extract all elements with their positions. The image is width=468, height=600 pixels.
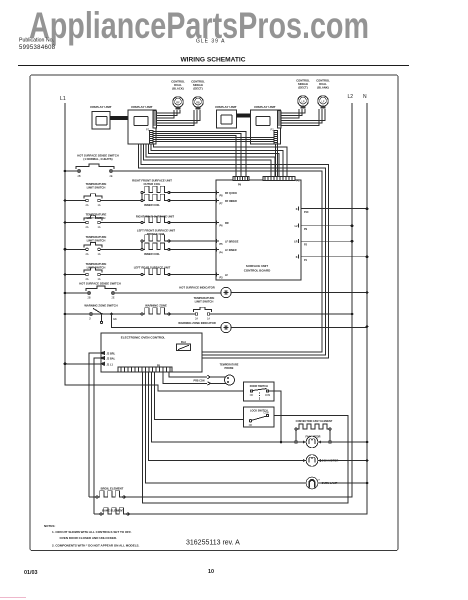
pin P8 RF QUICK xyxy=(213,191,237,198)
wire bus display2 P2 to display4 P2 xyxy=(153,138,274,142)
wire ribbon display1-display2 xyxy=(110,116,128,120)
connector probe chevrons xyxy=(207,375,210,385)
wire BRL to broil element xyxy=(89,353,101,497)
svg-text:HOT SURFACE SENSE SWITCH: HOT SURFACE SENSE SWITCH xyxy=(77,154,118,158)
svg-text:WARNING ZONE SWITCH: WARNING ZONE SWITCH xyxy=(84,304,117,308)
pin P1R wire to N xyxy=(296,255,367,262)
svg-text:GLE 39 A: GLE 39 A xyxy=(196,39,225,45)
wire L2 rail xyxy=(124,103,352,497)
connector display2 right xyxy=(153,111,157,128)
node S7 branch xyxy=(110,313,113,316)
wire RF inner to P7 xyxy=(169,200,213,202)
svg-text:INNER COIL: INNER COIL xyxy=(144,252,160,256)
temperature limit switch S5 xyxy=(84,262,107,281)
svg-text:(BLANK): (BLANK) xyxy=(317,86,329,90)
temperature limit switch S2 xyxy=(84,182,107,207)
svg-text:INNER COIL: INNER COIL xyxy=(144,203,160,207)
svg-text:WARNING ZONE INDICATOR: WARNING ZONE INDICATOR xyxy=(178,321,215,325)
display unit 1 xyxy=(90,105,111,129)
wire EOC to lock switch NO xyxy=(154,372,249,420)
wire fan display4 to LR xyxy=(281,109,305,118)
svg-text:LIMIT SWITCH: LIMIT SWITCH xyxy=(87,265,106,269)
svg-text:K: K xyxy=(296,256,298,259)
lamp oven xyxy=(306,477,338,489)
display unit 2 xyxy=(128,105,156,144)
wire EOC to fan row xyxy=(151,372,296,442)
svg-text:ELECTRONIC OVEN CONTROL: ELECTRONIC OVEN CONTROL xyxy=(121,336,166,340)
svg-text:2E: 2E xyxy=(111,297,114,300)
pin J2 BRL xyxy=(101,352,116,356)
wire EOC to probe low xyxy=(163,372,207,384)
wire bundle display2 to board P1 xyxy=(144,144,288,177)
wire lock motor to N xyxy=(318,460,367,462)
wire fan row to N xyxy=(331,441,367,443)
wire lamp to N xyxy=(318,482,367,484)
wire L1 to S5 xyxy=(65,274,86,276)
svg-text:2A: 2A xyxy=(195,318,198,321)
wire S3 to RR coil xyxy=(100,222,142,224)
pin P4 LF INNER xyxy=(213,247,237,254)
junction dots L1 rail xyxy=(64,170,67,366)
svg-text:DISPLAY UNIT: DISPLAY UNIT xyxy=(254,105,275,109)
wire RF outer to P8 xyxy=(169,192,213,194)
svg-text:DISPLAY UNIT: DISPLAY UNIT xyxy=(215,105,236,109)
pin P5 LF BRIDGE xyxy=(213,239,239,246)
resistor LR coil xyxy=(134,265,171,275)
wire L1 to S2 xyxy=(65,200,86,202)
svg-text:1A: 1A xyxy=(97,226,100,229)
svg-text:LEFT FRONT SURFACE UNIT: LEFT FRONT SURFACE UNIT xyxy=(137,229,176,233)
svg-text:RF QUICK: RF QUICK xyxy=(225,192,237,195)
svg-text:PROBE: PROBE xyxy=(225,367,234,370)
svg-text:CONTROL BOARD: CONTROL BOARD xyxy=(244,269,271,273)
electronic oven control U3 xyxy=(101,333,202,372)
resistor RF outer coil xyxy=(132,179,172,194)
svg-text:K: K xyxy=(296,208,298,211)
svg-text:BRIDGE COIL: BRIDGE COIL xyxy=(147,232,165,236)
title underline xyxy=(18,65,409,67)
svg-text:BAKE ELEMENT: BAKE ELEMENT xyxy=(102,509,124,513)
control LF dual blank xyxy=(316,79,330,109)
wire warning zone coil to S8 xyxy=(169,313,195,315)
svg-text:01/03: 01/03 xyxy=(24,570,38,576)
svg-text:RLA: RLA xyxy=(181,341,186,344)
display unit 4 xyxy=(251,105,281,144)
svg-text:LF BRIDGE: LF BRIDGE xyxy=(225,241,239,244)
node LF unit left xyxy=(141,241,143,249)
wire LR coil to P3 xyxy=(169,274,213,276)
wire fan display2 to RB xyxy=(157,110,200,125)
display unit 3 xyxy=(215,105,236,128)
svg-text:LIMIT SWITCH: LIMIT SWITCH xyxy=(87,186,106,190)
temperature limit switch S3 xyxy=(84,213,107,229)
wire S5 to LR coil xyxy=(100,274,142,276)
svg-text:TEMPERATURE: TEMPERATURE xyxy=(86,182,107,186)
svg-text:DISPLAY UNIT: DISPLAY UNIT xyxy=(90,105,111,109)
svg-text:P1: P1 xyxy=(304,259,308,262)
svg-text:LIMIT SWITCH: LIMIT SWITCH xyxy=(87,239,106,243)
svg-text:RR: RR xyxy=(225,222,229,225)
indicator hot surface xyxy=(179,286,231,298)
wire S7 to warning zone coil xyxy=(92,313,142,315)
svg-text:L2: L2 xyxy=(348,94,354,100)
svg-text:(BLACK): (BLACK) xyxy=(172,87,184,91)
wire S6 to hot surface indicator xyxy=(114,292,221,294)
wire L1 rail xyxy=(65,103,250,391)
svg-text:2A: 2A xyxy=(85,204,88,207)
svg-text:2A: 2A xyxy=(85,226,88,229)
svg-text:HOT SURFACE SENSE SWITCH: HOT SURFACE SENSE SWITCH xyxy=(79,282,120,286)
svg-text:1A: 1A xyxy=(97,204,100,207)
hot surface sense switch S1 xyxy=(76,154,119,178)
wire LF bridge to P5 xyxy=(169,240,213,242)
svg-text:L1: L1 xyxy=(60,96,66,102)
resistor RR coil xyxy=(136,215,175,224)
control RB single xyxy=(191,80,205,110)
wire L1 to S1 xyxy=(65,170,78,172)
control LR single xyxy=(296,79,310,109)
svg-text:OUTER COIL: OUTER COIL xyxy=(144,182,161,186)
svg-text:LF: LF xyxy=(321,99,324,103)
svg-text:CONTROL: CONTROL xyxy=(191,80,205,84)
connector display4 P2 xyxy=(271,128,278,145)
svg-text:2B: 2B xyxy=(77,175,80,178)
indicator warning zone xyxy=(178,321,231,333)
surface unit control board U2 xyxy=(216,180,301,280)
svg-text:1A: 1A xyxy=(207,318,210,321)
svg-text:(1 NORMAL, 4 HEATS): (1 NORMAL, 4 HEATS) xyxy=(83,157,112,161)
junction dots right rails xyxy=(280,207,369,484)
svg-text:LF: LF xyxy=(225,274,229,277)
svg-text:COM: COM xyxy=(263,413,268,415)
wire L1 to S6 xyxy=(65,292,88,294)
wire hot surface indicator to N xyxy=(231,292,367,294)
wire BAL to bake element xyxy=(94,358,101,514)
wire broil to L2 xyxy=(89,496,352,498)
pin P7 RF INNER xyxy=(213,199,237,206)
svg-text:P2: P2 xyxy=(304,243,308,246)
svg-text:LF INNER: LF INNER xyxy=(225,249,237,252)
motor lock xyxy=(303,455,338,467)
control RF dual black xyxy=(171,80,185,110)
pin J1 L1 xyxy=(101,362,114,366)
connector EOC P5 bottom xyxy=(118,364,172,371)
node RF unit left xyxy=(141,193,143,201)
hot surface sense switch S6 xyxy=(79,282,120,300)
svg-text:316255113 rev. A: 316255113 rev. A xyxy=(186,540,240,547)
svg-text:RF: RF xyxy=(176,100,180,104)
resistor LF inner coil xyxy=(141,243,170,256)
wire S2 to RF unit xyxy=(100,200,142,202)
svg-text:SURFACE UNIT: SURFACE UNIT xyxy=(246,264,268,268)
svg-text:2. COMPONENTS WITH * DO NOT: 2. COMPONENTS WITH * DO NOT APPEAR ON AL… xyxy=(52,544,140,548)
wire EOC to probe high xyxy=(169,372,207,377)
svg-text:2A: 2A xyxy=(85,253,88,256)
motor fan xyxy=(295,435,331,448)
svg-text:*: * xyxy=(318,477,320,482)
wire fan display2 to RF xyxy=(157,110,180,118)
wire door COM down to fan row xyxy=(269,391,281,442)
svg-text:LR: LR xyxy=(301,99,304,103)
pin J2 BAL xyxy=(101,357,116,361)
wire chevrons to probe xyxy=(211,377,226,383)
convection element R10 xyxy=(295,420,333,442)
svg-text:SINGLE: SINGLE xyxy=(298,82,308,86)
connector display2 P2 xyxy=(146,128,153,145)
svg-text:COM: COM xyxy=(265,395,270,397)
svg-text:WIRING SCHEMATIC: WIRING SCHEMATIC xyxy=(180,57,245,64)
svg-text:TEMPERATURE: TEMPERATURE xyxy=(86,213,107,217)
lock switch SW2 xyxy=(244,407,275,427)
relay RLA xyxy=(177,341,191,351)
wire N rail xyxy=(128,103,367,514)
wire bus display2 P2 to board P9 xyxy=(153,132,246,177)
wire S1 to oven control relay xyxy=(112,171,322,352)
svg-text:H1: H1 xyxy=(114,318,118,321)
svg-text:2: 2 xyxy=(89,318,91,321)
temperature limit switch S8 xyxy=(194,296,215,321)
svg-text:1A: 1A xyxy=(97,278,100,281)
resistor warning zone xyxy=(141,304,170,316)
svg-text:CONTROL: CONTROL xyxy=(316,79,330,83)
wire display4 P2 to board P1 xyxy=(275,144,277,177)
wire bake to N xyxy=(94,513,367,515)
resistor LF bridge coil xyxy=(137,229,176,243)
svg-text:P10: P10 xyxy=(304,211,309,214)
svg-text:CONTROL: CONTROL xyxy=(171,80,185,84)
svg-text:J1 L1: J1 L1 xyxy=(107,363,114,366)
svg-text:2A: 2A xyxy=(85,278,88,281)
wire EOC to oven lamp xyxy=(145,372,306,483)
svg-text:HOT SURFACE INDICATOR: HOT SURFACE INDICATOR xyxy=(179,286,215,290)
wire bundle display2 to relay loop xyxy=(139,144,329,358)
svg-text:LR: LR xyxy=(294,240,298,243)
connector board P1 top xyxy=(263,177,300,183)
wire L1 to S3 xyxy=(65,222,86,224)
svg-text:DOOR SWITCH: DOOR SWITCH xyxy=(250,385,268,388)
svg-text:10: 10 xyxy=(208,569,214,575)
svg-text:RIGHT REAR SURFACE UNIT: RIGHT REAR SURFACE UNIT xyxy=(136,215,175,219)
svg-text:NO: NO xyxy=(249,425,253,427)
svg-text:RB: RB xyxy=(196,100,200,104)
wire L1 to S4 xyxy=(65,248,86,250)
svg-text:NOTES:: NOTES: xyxy=(44,524,55,528)
notes block xyxy=(44,524,140,548)
wire RR coil to P6 xyxy=(169,222,213,224)
svg-text:OVEN DOOR CLOSED AND UNLOCKED.: OVEN DOOR CLOSED AND UNLOCKED. xyxy=(60,536,118,540)
svg-text:P9: P9 xyxy=(304,228,308,231)
wire L1 to J1 xyxy=(65,363,101,365)
wire S7 branch to warning indicator xyxy=(112,314,221,328)
wire LF inner to P4 xyxy=(169,248,213,250)
wire S4 to LF unit xyxy=(100,248,142,250)
resistor RF inner coil xyxy=(141,194,170,207)
svg-text:TEMPERATURE: TEMPERATURE xyxy=(86,235,107,239)
svg-text:5995384608: 5995384608 xyxy=(19,45,56,51)
temperature limit switch S4 xyxy=(84,235,107,256)
wire ribbon display3-display4 xyxy=(237,114,251,118)
svg-text:SINGLE: SINGLE xyxy=(193,83,203,87)
connector display4 right xyxy=(278,111,282,128)
warning zone switch S7 xyxy=(84,304,117,324)
resistor broil element xyxy=(96,487,125,499)
door switch SW1 xyxy=(244,382,275,401)
svg-text:2E: 2E xyxy=(109,175,112,178)
svg-text:RIGHT FRONT SURFACE UNIT: RIGHT FRONT SURFACE UNIT xyxy=(132,179,172,183)
pin P9R wire to L2 xyxy=(295,224,352,231)
svg-text:LEFT REAR SURFACE UNIT: LEFT REAR SURFACE UNIT xyxy=(134,265,171,269)
pin P6 RR xyxy=(213,221,229,228)
svg-text:WARNING ZONE: WARNING ZONE xyxy=(145,304,167,308)
svg-text:N: N xyxy=(363,94,367,100)
scan artifact pink line xyxy=(0,597,26,599)
temperature probe xyxy=(220,364,239,386)
svg-text:NO: NO xyxy=(250,395,254,397)
wire EOC to lock loop xyxy=(142,372,348,503)
svg-text:1A: 1A xyxy=(97,253,100,256)
wire L1 to S7 xyxy=(65,313,90,315)
svg-text:Publication No.: Publication No. xyxy=(19,38,54,44)
connector board P9 top xyxy=(233,177,249,187)
svg-text:TEMPERATURE: TEMPERATURE xyxy=(86,262,107,266)
schematic frame xyxy=(30,75,398,551)
svg-text:PRB CON: PRB CON xyxy=(193,380,204,383)
svg-text:(DECT): (DECT) xyxy=(298,86,307,90)
svg-text:TEMPERATURE: TEMPERATURE xyxy=(194,296,215,300)
wire S8 to L2 xyxy=(210,313,352,315)
pin P2 wire to N xyxy=(294,239,352,246)
svg-text:2B: 2B xyxy=(87,297,90,300)
svg-text:CONTROL: CONTROL xyxy=(296,79,310,83)
svg-text:DUAL: DUAL xyxy=(174,83,182,87)
svg-text:(DECT): (DECT) xyxy=(193,87,202,91)
svg-text:CONVECTION ASSY ELEMENT: CONVECTION ASSY ELEMENT xyxy=(296,420,333,423)
wire fan display4 to LF xyxy=(281,109,325,125)
pin P10 wire to N xyxy=(296,207,367,214)
svg-text:1. CIRCUIT SHOWN WITH ALL CON: 1. CIRCUIT SHOWN WITH ALL CONTROLS SET T… xyxy=(52,530,132,534)
wire EOC to lock motor xyxy=(148,372,306,461)
svg-text:DUAL: DUAL xyxy=(319,82,327,86)
pin P3 LF xyxy=(213,273,229,280)
svg-text:RF INNER: RF INNER xyxy=(225,200,237,203)
resistor bake element xyxy=(100,508,129,515)
svg-text:LIMIT SWITCH: LIMIT SWITCH xyxy=(195,300,214,304)
svg-text:BROIL ELEMENT: BROIL ELEMENT xyxy=(101,487,124,491)
wire warning indicator to N xyxy=(231,327,367,329)
svg-text:DISPLAY UNIT: DISPLAY UNIT xyxy=(131,105,152,109)
svg-text:J2 BRL: J2 BRL xyxy=(107,353,116,356)
svg-text:J2 BAL: J2 BAL xyxy=(107,358,116,361)
